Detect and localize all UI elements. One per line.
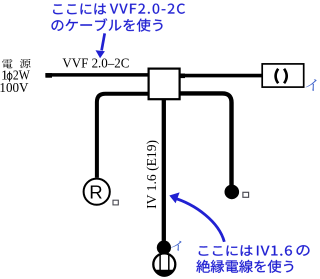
junction box bbox=[149, 69, 180, 100]
label イ at outlet box bbox=[306, 79, 317, 91]
svg-text:VVF 2.0–2C: VVF 2.0–2C bbox=[62, 57, 129, 72]
annotation arrow to IV wire bbox=[169, 192, 224, 241]
svg-text:100V: 100V bbox=[0, 80, 29, 95]
wire: junction box to outlet box bbox=[179, 73, 263, 78]
wire: right branch to switch bbox=[179, 93, 232, 185]
annotation: top note line 1 bbox=[53, 4, 106, 15]
annotation: bottom note line 1 bbox=[199, 245, 253, 255]
switch dot (right branch) bbox=[225, 185, 240, 200]
label ロ at lamp receptacle bbox=[113, 200, 118, 205]
label イ at middle switch bbox=[171, 241, 182, 251]
ceiling fixture symbol bbox=[153, 253, 175, 276]
annotation: top note line 2 bbox=[52, 18, 163, 31]
annotation: bottom note line 2 bbox=[196, 260, 293, 273]
power source label 1φ2W bbox=[1, 69, 30, 84]
switch dot (middle branch) bbox=[157, 241, 171, 255]
label ロ at right dot bbox=[243, 192, 249, 197]
phi symbol bbox=[7, 71, 12, 81]
annotation arrow to VVF label bbox=[96, 33, 105, 58]
svg-text:R: R bbox=[89, 181, 102, 202]
power source label 電源 bbox=[2, 59, 13, 68]
svg-text:IV 1.6 (E19): IV 1.6 (E19) bbox=[144, 140, 160, 209]
lamp receptacle R bbox=[84, 179, 110, 205]
outlet box with ( ) bbox=[262, 64, 304, 87]
wire: left branch to lamp receptacle bbox=[97, 94, 149, 178]
wire: power feed to junction box bbox=[45, 73, 148, 78]
wire: middle branch down bbox=[162, 99, 166, 241]
